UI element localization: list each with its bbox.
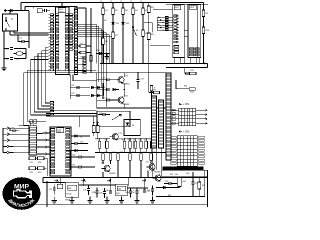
wire X1 pin 1 [14,127,29,129]
switch SA1 box [3,14,18,31]
wire [156,196,205,198]
junction [132,2,134,4]
regulator DA3 body [116,184,127,195]
wire [10,130,13,132]
resistor R27 [29,157,36,160]
wire X5 drop [160,148,162,178]
wire [96,53,110,55]
bus sweep line 0 [45,48,50,103]
junction [142,2,144,4]
junction [174,63,176,65]
svg-text:DA2: DA2 [68,187,72,190]
input arrow [4,9,8,11]
wire [94,87,97,89]
svg-text:VD2: VD2 [116,23,120,25]
diode VD3 [121,22,124,25]
wire [198,189,200,197]
wire drop psu c [110,178,112,191]
diode VD14 [75,149,78,152]
out arrow c [107,179,111,181]
wire [71,143,75,145]
IC DD1 right pin numbers [69,14,72,51]
svg-text:R8: R8 [81,57,83,59]
wire [109,79,116,81]
diode VD4 [99,52,102,55]
svg-text:C31: C31 [72,165,75,167]
bus sweep line 3 [34,57,50,112]
wire [151,91,153,96]
wire T1 out 0 [196,109,205,111]
wire [123,148,125,152]
IC DD1 CPU body [55,7,69,75]
wire DD4 feed b [33,125,35,126]
IC DD2 body [173,5,185,58]
wire [23,53,26,55]
svg-text:R28: R28 [38,162,41,164]
wire [192,184,194,196]
T2 left pin boxes [171,136,177,164]
resistor R24 [129,154,132,161]
IC DD2 pin labels [174,15,177,43]
wire T1 out 2 [196,118,205,120]
svg-text:R11: R11 [151,7,154,9]
ground bottom x90 [87,201,92,204]
wire [105,114,110,116]
wire [99,148,101,152]
out arrow a [54,180,58,182]
bus corner down [96,24,112,107]
wire VT2 collector up [123,90,125,97]
resistor R7a [80,45,86,48]
wire R4 column [132,3,134,64]
svg-text:R30: R30 [38,172,41,174]
svg-text:R14: R14 [128,139,131,141]
transformer T2 core bar [163,167,204,170]
resistor R6 [102,38,105,45]
svg-text:C28: C28 [11,128,14,130]
wire dd2 in 5 [157,29,173,31]
svg-text:VD5: VD5 [96,50,100,52]
junction [160,19,162,21]
svg-text:R12: R12 [105,139,108,141]
wire X4 drop [152,148,154,178]
resistor R8a [80,51,86,54]
wire [53,185,55,188]
wire [145,148,147,152]
wire X1 pin 3 [14,139,29,141]
wire drop psu b [82,178,84,187]
transformer T1 grid [179,108,196,126]
wire [179,187,181,188]
ground bottom x137 [134,201,139,204]
wire [87,52,92,54]
svg-text:ЕН5: ЕН5 [116,193,120,195]
svg-text:R44: R44 [183,181,186,183]
wire dd2 in 2 [157,22,173,24]
wire [87,45,92,47]
wire [134,138,136,141]
ground bottom x152.5 [150,201,155,204]
wire [18,41,22,43]
wire rail y152 [95,152,166,154]
wire dd2 in 4 [157,27,173,29]
resistor R9a [90,56,93,62]
resistor R17 [145,141,148,148]
bus sweep line 1 [42,51,51,106]
wire R3 column [122,3,124,64]
wire corner DD5 [78,116,80,127]
junction [137,72,139,74]
svg-text:R50: R50 [170,174,173,176]
resistor R39 [154,91,160,94]
wire [69,150,71,170]
wire vertical bus a [85,8,87,64]
svg-text:C24: C24 [102,87,105,89]
resistor R16 [140,141,143,148]
wire X4 drop b [155,148,157,170]
wire [166,187,180,189]
wire [140,148,142,152]
wire left drop [3,31,5,45]
wire DD3 pin drop [199,58,201,64]
diode VD7 [91,94,94,97]
wire row feed [69,76,71,99]
capacitor C24 [107,88,109,91]
ground bottom x121.5 [119,201,124,204]
svg-text:C40: C40 [106,190,109,192]
junction [97,122,99,124]
wire [36,167,38,169]
wire [166,3,208,5]
wire X1 pin 5 [14,152,29,154]
junction [162,29,164,31]
wire row 0 [70,87,90,89]
IC DD5 label box [57,128,64,133]
wire [129,148,131,152]
wire [127,187,148,189]
ground mid [104,57,109,60]
resistor R21 [102,154,105,161]
wire [70,156,79,158]
wire [99,138,101,141]
wire [20,3,22,12]
wire [185,73,186,75]
svg-text:R22: R22 [112,152,115,154]
wire [204,170,206,196]
wire [130,188,132,191]
arrow T1 out 0 [204,109,207,111]
wire [104,188,106,191]
trim arrow [112,115,121,121]
wire X1 pin 4 [14,145,29,147]
connector X1 left rail [2,128,4,153]
svg-text:R7: R7 [81,43,83,45]
junction [20,10,22,12]
wire [37,146,43,148]
wire [152,197,154,201]
wire T1 in 0 [171,109,179,111]
capacitor C27 [151,124,154,126]
connector boxes X2 [165,17,168,31]
wire C28 feed [18,125,23,127]
capacitor C26 [103,113,105,116]
IC DD4 body [29,126,37,155]
svg-text:VT5: VT5 [146,162,149,164]
wire vertical bus b [90,8,92,73]
svg-text:560: 560 [175,174,178,176]
wire VT1 emitter down [123,83,125,89]
wire R2 column [112,3,114,64]
wire feed a [46,113,97,115]
resistor R31 [92,126,95,133]
wire [162,176,208,178]
wire [140,160,142,164]
svg-text:R46: R46 [168,195,171,197]
wire T1 out 3 [196,122,205,124]
resistor R1 [102,8,105,15]
wire X1 pin 2 [14,133,29,135]
resistor R30 [38,167,45,170]
svg-text:R17: R17 [144,139,147,141]
svg-text:220k: 220k [190,92,194,94]
RN2 cells [83,57,86,73]
svg-text:R39: R39 [153,90,156,92]
wire rail y63 [100,63,208,65]
svg-text:VT3: VT3 [119,133,122,135]
wire [98,114,103,116]
wire [79,184,116,186]
IC DD1 left pin numbers [50,14,53,71]
wire [9,31,11,35]
wire [96,188,98,191]
IC DD5 left pin labels [51,129,55,174]
wire [110,160,112,164]
capacitor C4 [44,9,46,12]
wire [88,185,90,188]
wire [53,197,55,201]
svg-text:C32: C32 [49,189,52,191]
svg-text:C34b: C34b [125,192,129,194]
IC DD3 label box [190,5,196,10]
capacitor C34b [129,191,132,193]
IC DD3 lower cells [189,48,193,56]
diode VD13 [75,134,78,137]
wire [129,160,131,164]
bus sweep line 4 [31,60,51,116]
svg-text:+ ЗУ2: + ЗУ2 [183,131,190,134]
wire VT5 emitter drop [147,170,149,177]
wire [93,133,95,137]
wire data bus 1 [78,25,99,27]
wire [15,130,18,132]
wire [136,197,138,201]
resistor R19c [150,86,153,92]
crystal ZQ1 [16,52,23,56]
connector ladder X5 body [159,100,164,148]
junction [112,63,114,65]
connector ladder X4 body [152,96,157,148]
svg-text:R11: R11 [97,139,100,141]
wire drop psu d [127,178,129,187]
wire [192,172,194,182]
wire [9,11,11,15]
wire [36,157,38,159]
resistor R28 [38,157,45,160]
capacitor C30 [79,156,81,159]
wire data bus 6 [78,36,112,38]
svg-text:C22: C22 [71,93,74,95]
wire T1 in 3 [171,122,179,124]
wire data bus 3 [78,30,104,32]
wire [77,150,88,152]
wire DD3 pin drop [195,58,197,64]
capacitor C40 [109,191,112,193]
wire [88,191,90,195]
wire [78,45,80,47]
wire VT4 emitter drop [102,172,104,178]
wire data bus 4 [78,32,107,34]
wire [134,148,136,152]
wire [24,7,26,12]
wire [24,41,29,43]
diode VD2 [111,22,114,25]
capacitor C3 [22,40,24,43]
wire [71,135,75,137]
capacitor C34 [136,191,139,193]
wire bottom rail [23,203,208,205]
resistor R4 [132,8,135,15]
wire [9,128,11,131]
wire [42,10,44,12]
svg-text:R15: R15 [133,139,136,141]
svg-text:C33: C33 [83,189,86,191]
diode VD10 [126,123,129,126]
transistor VT7 [152,174,161,181]
wire mid row [97,89,107,91]
optocoupler ladder U1 [166,73,171,160]
wire rail y138b [124,138,155,140]
bus sweep line 6 [24,73,97,126]
wire [13,31,15,33]
U1 cells [166,74,170,157]
wire [151,138,153,141]
wire [61,3,63,8]
resistor R12 [147,33,150,40]
wire [123,138,125,141]
wire [69,75,71,77]
svg-text:2SD882: 2SD882 [109,173,116,175]
resistor R7 [112,32,115,39]
capacitor C31 [79,166,81,169]
diode VD12 [163,186,166,189]
svg-text:CPU: CPU [59,11,64,13]
junction [112,2,114,4]
resistor R29 [29,167,36,170]
resistor R26 [150,154,153,161]
IC DD3 internal divider [197,5,199,58]
resistor R12 [106,141,109,148]
wire to DD1 [14,32,49,34]
wire [76,7,78,9]
wire [37,133,43,135]
wire to DD1 [10,34,49,36]
capacitor C1 [10,47,13,49]
resistor R11 [147,6,150,13]
wire input [8,10,29,12]
wire data bus 2 [78,27,101,29]
wire [43,182,66,184]
wire [109,99,116,101]
wire [4,48,9,50]
svg-text:R26: R26 [153,152,156,154]
resistor R44 [178,178,182,187]
wire [151,121,153,124]
IC DD1 label box [58,8,66,13]
transformer T2 grid [177,136,197,167]
resistor R9 [202,10,205,17]
wire top right rail [149,2,204,4]
svg-text:R9: R9 [206,13,208,15]
resistor R8 [142,30,145,37]
wire data bus 0 [78,23,96,25]
resistor R45 [198,182,201,189]
wire [14,53,17,55]
wire x-link [150,44,170,46]
wire [150,160,152,164]
diode VD9 [97,94,100,97]
wire [53,190,55,194]
small box K2 top [37,9,42,13]
wire right corner [207,64,209,68]
wire [137,73,139,80]
RN1 cells [75,10,78,73]
wire second top rail [25,6,77,8]
wire left drop2 [3,45,5,68]
transistor VT3 [110,133,119,140]
wire DD3 pin drop [190,58,192,64]
junction [132,63,134,65]
wire [81,166,95,168]
wire [102,160,104,164]
ground bottom x54.3 [52,201,57,204]
IC DD1 left pin labels [56,14,59,71]
junction [102,63,104,65]
IC DD5 right pin labels [66,129,70,174]
capacitor C25 [107,99,109,102]
capacitor C20 [186,72,188,75]
regulator DA3 inner [117,186,125,191]
wire [171,183,177,185]
wire [151,127,153,131]
wire column R11 [148,3,150,64]
wire [14,58,26,60]
wire dd2 top in [153,9,173,11]
svg-text:2SD882: 2SD882 [154,172,161,174]
svg-text:C34: C34 [132,192,135,194]
wire [14,48,26,50]
connector X1 contacts [3,127,14,154]
module left connector cells [50,102,53,115]
wire row 1 [70,95,90,97]
wire feed a0 [50,110,97,112]
svg-text:C36: C36 [165,181,168,183]
wire [102,83,104,99]
wires DD1 to RN1 [73,15,75,50]
wire row B drop [129,164,131,178]
svg-text:R13: R13 [122,139,125,141]
resistor R23 [117,154,120,161]
arrow T1 out 3 [204,122,207,124]
